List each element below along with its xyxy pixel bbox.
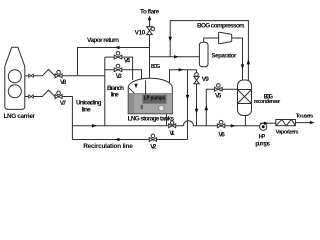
label: V3 — [116, 73, 123, 80]
wire: branch manifold vertical — [104, 57, 106, 126]
wire: recondenser bottom drain — [244, 116, 246, 126]
svg-text:Separator: Separator — [212, 53, 238, 59]
wire: upper arm with loading-arm peak — [33, 69, 55, 75]
label: Unloading line second word — [82, 107, 91, 114]
svg-text:To users: To users — [296, 114, 314, 120]
valve V6 bowtie — [217, 124, 224, 128]
valve V7 actuator circle — [57, 91, 61, 95]
svg-text:V7: V7 — [60, 100, 67, 107]
arrow: recycle up from recondenser — [247, 59, 251, 64]
valve V10 bowtie (vertical) — [147, 27, 153, 35]
arrow: recirculation drop flow down — [186, 95, 190, 100]
label: V5 — [215, 93, 222, 100]
svg-text:V5: V5 — [215, 93, 222, 100]
carrier tank dome circle 2 — [8, 85, 21, 98]
svg-text:Vaporizers: Vaporizers — [276, 129, 299, 135]
valve V4 actuator circle — [116, 52, 120, 56]
label: Unloading — [76, 100, 102, 107]
valve V5 actuator circle — [217, 84, 221, 88]
wire: line jump bump over recirculation drop — [183, 121, 193, 126]
arrow: recirculation flow left — [115, 138, 120, 141]
wire: vapor return arm from V8 to branch manifold — [62, 75, 105, 77]
label: V7 — [60, 100, 67, 107]
carrier tank dome circle 1 — [8, 70, 21, 83]
arrow: V9 drain flow down — [195, 109, 199, 114]
valve V3 actuator circle — [116, 64, 120, 68]
wire: separator overhead to compressor — [204, 38, 219, 42]
label: BOG compressors — [197, 22, 245, 29]
svg-text:BOG: BOG — [151, 64, 160, 70]
label: V9 — [202, 76, 209, 83]
wire: recycle rail top — [170, 21, 248, 81]
wire: compressor discharge to recondenser top — [232, 38, 243, 80]
valve: ship manifold valve lower (small bowtie) — [29, 95, 34, 98]
valve V9 bowtie (vertical) — [194, 76, 199, 83]
label: HP — [259, 135, 266, 141]
svg-text:Vapor return: Vapor return — [87, 37, 119, 44]
wire: LP pump discharge header from tank top — [170, 70, 197, 83]
BOG compressor symbol — [219, 32, 232, 44]
label: BOG recondenser line 1 — [264, 94, 274, 100]
LNG carrier hull — [5, 47, 25, 109]
arrow: vapor return flow (left) — [115, 46, 120, 49]
arrow: flow right to HP pumps — [231, 124, 236, 127]
wire: ship stub to upper arm — [25, 75, 29, 77]
recondenser packing section bottom line — [238, 103, 252, 105]
svg-text:LNG carrier: LNG carrier — [4, 113, 36, 120]
svg-text:LNG storage tanks: LNG storage tanks — [128, 115, 175, 122]
wire: HP pump discharge tangent line — [260, 122, 276, 124]
svg-text:BOG compressors: BOG compressors — [197, 22, 245, 29]
BOG recondenser vessel — [238, 80, 252, 116]
wire: unloading line down-leg from V7 — [62, 97, 72, 140]
svg-text:V9: V9 — [202, 76, 209, 83]
svg-text:pumps: pumps — [255, 141, 270, 148]
LNG storage tank outline — [128, 78, 172, 114]
svg-text:V3: V3 — [116, 73, 123, 80]
svg-text:LP pumps: LP pumps — [144, 96, 165, 102]
wire: ship stub to lower arm — [25, 96, 29, 98]
svg-text:To flare: To flare — [140, 8, 160, 15]
arrow: to flare (up) — [148, 15, 152, 20]
wire: recirculation line bottom — [72, 139, 187, 141]
valve V1 actuator circle — [171, 121, 174, 124]
wire: line to users — [295, 122, 313, 124]
label: LP pumps — [144, 96, 165, 102]
valve V3 bowtie — [114, 68, 122, 72]
recondenser packing section top line — [238, 89, 252, 91]
label: V8 — [60, 79, 67, 86]
pump symbol circle in tank — [159, 106, 164, 111]
arrow: compressor discharge down — [241, 64, 245, 69]
label: Vaporizers — [276, 129, 299, 135]
label: V1 — [169, 130, 175, 137]
valve V2 bowtie — [149, 138, 156, 142]
svg-text:V4: V4 — [124, 58, 131, 65]
arrow: header flow right — [179, 68, 184, 71]
vaporizer box — [276, 120, 296, 126]
svg-text:recondenser: recondenser — [254, 99, 281, 105]
valve V8 bowtie — [55, 74, 62, 78]
wire: vapor return header — [78, 48, 150, 76]
svg-text:V6: V6 — [218, 131, 225, 138]
wire: V9 drain line from separator area to bottom line — [196, 70, 198, 126]
wire: tank bottom outlet drop — [166, 114, 168, 126]
wire: V4 branch line — [105, 57, 133, 80]
valve V4 bowtie — [114, 55, 122, 59]
valve V5 bowtie — [215, 87, 223, 91]
arrow: V5 riser flow up — [205, 105, 209, 110]
valve: ship manifold valve upper (small bowtie) — [29, 74, 34, 77]
wire: V3 branch line — [105, 70, 142, 80]
svg-text:Recirculation line: Recirculation line — [83, 143, 133, 150]
label: BOG at tank riser — [151, 64, 160, 70]
valve V9 actuator circle — [195, 73, 199, 77]
label: Branch line second word — [111, 91, 119, 98]
wire: separator feed line — [150, 56, 200, 58]
label: Recirculation line — [83, 143, 133, 150]
label: V6 — [218, 131, 225, 138]
vaporizer zigzag — [276, 120, 296, 126]
HP pump center dot — [262, 125, 265, 128]
LNG storage tank liquid fill — [129, 94, 172, 114]
LP pumps box — [143, 95, 167, 104]
svg-text:line: line — [111, 91, 119, 98]
LNG storage tank liquid surface line — [129, 93, 172, 95]
valve V10 actuator circle — [151, 27, 155, 31]
valve V8 actuator circle — [57, 70, 61, 74]
svg-text:V1: V1 — [169, 130, 175, 137]
label: Vapor return — [87, 37, 119, 44]
wire: BOG riser from tank dome to flare — [149, 20, 151, 78]
label: Separator — [212, 53, 238, 59]
label: To flare — [140, 8, 160, 15]
arrow: tank fill arrow into dome — [134, 84, 137, 89]
separator vessel — [199, 42, 208, 67]
label: V10 — [135, 29, 146, 36]
wire: V5 riser and line to recondenser — [206, 89, 237, 126]
HP pump circle — [260, 123, 267, 130]
valve V7 bowtie — [55, 95, 62, 99]
svg-text:V8: V8 — [60, 79, 67, 86]
arrow: to users (right) — [310, 121, 315, 124]
LNG storage tank liquid shading band — [129, 94, 135, 114]
wire: internal fill diagonal inside tank — [129, 88, 138, 97]
valve V2 actuator circle — [151, 134, 155, 138]
wire: lower arm with loading-arm peak — [33, 90, 55, 96]
wire: recirculation drop line — [187, 70, 189, 140]
label: HP pumps second word — [255, 141, 270, 148]
svg-text:V10: V10 — [135, 29, 146, 36]
valve V6 actuator circle — [219, 120, 223, 124]
label: V4 — [124, 58, 131, 65]
svg-text:V2: V2 — [150, 143, 157, 150]
recondenser packing X diagonals — [238, 90, 252, 104]
arrow: unloading flow right — [92, 124, 97, 127]
arrow: HP pump discharge right — [264, 122, 269, 125]
label: To users — [296, 114, 314, 120]
valve V1 bowtie — [169, 124, 176, 128]
label: LNG storage tanks — [128, 115, 175, 122]
label: LNG carrier — [4, 113, 36, 120]
level gauge mark in tank — [141, 105, 143, 109]
label: V2 — [150, 143, 157, 150]
label: BOG recondenser line 2 — [254, 99, 281, 105]
svg-text:line: line — [82, 107, 91, 114]
wire: main bottom line left segment — [72, 125, 183, 127]
wire: LP pump column stub in dome — [145, 81, 147, 95]
label: Branch — [107, 85, 124, 92]
arrow: recycle down into feed line — [168, 37, 172, 42]
wire: main bottom line right segment — [194, 125, 260, 127]
arrow: separator feed flow (right) — [174, 55, 179, 58]
